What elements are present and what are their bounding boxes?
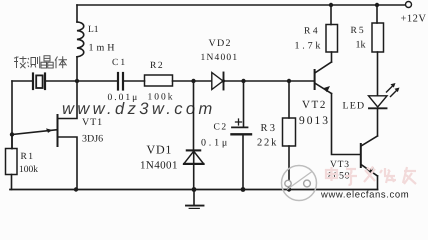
LED light arrows <box>387 85 394 92</box>
svg-text:R3: R3 <box>261 123 278 134</box>
transistor VT2 <box>314 69 316 90</box>
svg-text:VT1: VT1 <box>82 117 103 128</box>
svg-text:9013: 9013 <box>299 115 330 127</box>
transistor VT3 <box>360 143 362 168</box>
svg-text:www.dz3w.com: www.dz3w.com <box>62 100 216 118</box>
diode VD2 <box>212 73 223 90</box>
wire top rail <box>77 4 406 6</box>
svg-text:1N4001: 1N4001 <box>140 160 178 172</box>
svg-text:+12V: +12V <box>401 14 427 25</box>
wire <box>173 80 212 82</box>
wire C2 branch <box>243 81 245 127</box>
node VD1 junction <box>191 79 195 83</box>
wire VD1 branch <box>193 81 195 150</box>
node L1/VT1 drain junction <box>75 79 79 83</box>
svg-text:100k: 100k <box>19 165 38 175</box>
node R5 top <box>375 3 379 7</box>
node gate junction <box>10 132 14 136</box>
wire <box>46 80 117 82</box>
node VD1 bottom <box>192 187 197 192</box>
svg-text:L1: L1 <box>88 25 99 35</box>
wire bottom rail <box>10 189 378 191</box>
wire R3 branch <box>288 81 290 118</box>
wire left branch <box>11 81 13 149</box>
resistor R1 <box>6 149 18 175</box>
svg-text:1mH: 1mH <box>89 43 118 54</box>
watermark 电子发烧友 (pink) <box>326 167 416 186</box>
pin wire R1 top <box>11 135 13 149</box>
wire <box>224 80 314 82</box>
node R4 top <box>329 3 333 7</box>
svg-text:www.elecfans.com: www.elecfans.com <box>320 190 409 201</box>
svg-text:R1: R1 <box>21 152 35 162</box>
transistor VT1 (JFET) <box>57 114 59 147</box>
capacitor C2 <box>232 126 248 128</box>
svg-text:R5: R5 <box>351 26 366 36</box>
node R3 bottom <box>287 187 291 191</box>
diode VD1 <box>187 149 200 151</box>
svg-text:0.1μ: 0.1μ <box>201 138 230 149</box>
wire <box>124 80 145 82</box>
node R3 junction <box>287 79 291 83</box>
inductor L1 <box>76 5 78 22</box>
resistor R2 <box>145 75 173 86</box>
svg-text:3DJ6: 3DJ6 <box>82 134 103 145</box>
wire main horizontal <box>12 80 32 82</box>
terminal +12V <box>406 2 412 8</box>
resistor R5 <box>372 23 384 52</box>
svg-text:R4: R4 <box>304 27 320 37</box>
resistor R4 <box>326 25 338 53</box>
crystal B <box>32 74 34 90</box>
ground <box>193 190 195 205</box>
node VT1 source bottom <box>74 187 78 191</box>
watermark stamp circle (elecfans logo) <box>282 166 317 201</box>
LED D1 <box>369 96 388 107</box>
svg-text:1k: 1k <box>356 40 366 51</box>
svg-text:C2: C2 <box>214 123 228 133</box>
resistor R3 <box>283 118 296 146</box>
node C2 junction <box>241 79 245 83</box>
svg-text:R2: R2 <box>150 61 164 71</box>
node C2 bottom <box>241 187 246 192</box>
label 被测晶体 (crystal under test) <box>14 56 67 68</box>
svg-text:C1: C1 <box>112 58 127 68</box>
svg-text:22k: 22k <box>257 138 278 149</box>
svg-text:LED: LED <box>343 101 366 112</box>
svg-text:VD2: VD2 <box>209 38 232 49</box>
svg-text:VT2: VT2 <box>302 99 327 111</box>
capacitor C1 <box>117 73 119 90</box>
svg-text:1N4001: 1N4001 <box>201 53 239 63</box>
svg-text:1.7k: 1.7k <box>295 41 324 52</box>
svg-text:VD1: VD1 <box>147 143 173 157</box>
